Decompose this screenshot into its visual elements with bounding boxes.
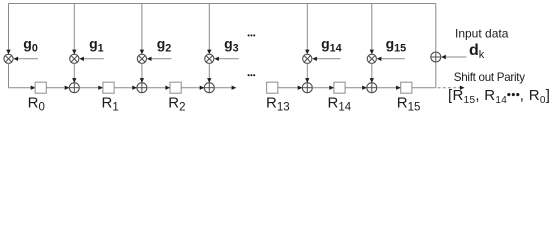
register R0 box xyxy=(35,82,46,93)
wire: g14 multiplier output into adder xyxy=(305,63,309,82)
multiplier g15 (circle-X) xyxy=(367,54,376,63)
svg-text:R1: R1 xyxy=(102,94,119,113)
wire: input adder output up to feedback line xyxy=(435,4,437,53)
multiplier g2 (circle-X) xyxy=(137,54,146,63)
ellipsis: top continuation dots xyxy=(248,34,256,36)
wire: tap from feedback to multiplier g2 xyxy=(140,4,144,55)
wire: coefficient input g0 xyxy=(14,57,39,61)
adder (XOR) below g15 xyxy=(367,83,377,93)
node: feedback junction / riser to input adder xyxy=(435,62,437,88)
wire: tap from feedback to multiplier g0 xyxy=(6,4,10,55)
wire: coefficient input g14 xyxy=(312,57,340,61)
register R13 box xyxy=(267,82,278,93)
wire: R13 to adder g14 xyxy=(278,86,303,90)
wire: R1 to adder g2 xyxy=(114,86,137,90)
svg-text:g2: g2 xyxy=(157,36,172,55)
wire: g0 multiplier output to R0 xyxy=(9,63,36,90)
svg-text:Shift out Parity: Shift out Parity xyxy=(454,71,525,84)
wire: g2 multiplier output into adder xyxy=(140,63,144,82)
svg-text:dk: dk xyxy=(469,42,485,61)
svg-text:R2: R2 xyxy=(168,94,185,113)
svg-text:g15: g15 xyxy=(386,36,407,55)
multiplier g14 (circle-X) xyxy=(303,54,312,63)
wire: tap from feedback to multiplier g1 xyxy=(72,4,76,55)
svg-text:g14: g14 xyxy=(321,36,342,55)
svg-text:g0: g0 xyxy=(23,36,38,55)
wire: adder g2 to R2 xyxy=(147,86,170,90)
wire: dashed shift-out arrow xyxy=(438,86,465,90)
wire: tap from feedback to multiplier g14 xyxy=(305,4,309,55)
wire: g3 multiplier output into adder xyxy=(207,63,211,82)
multiplier g3 (circle-X) xyxy=(205,54,214,63)
svg-text:R15: R15 xyxy=(397,94,421,113)
wire: tap from feedback to multiplier g3 xyxy=(207,4,211,55)
wire: adder g3 onward (continues) xyxy=(214,86,236,90)
wire: top feedback line xyxy=(9,3,436,5)
svg-text:, R0]: , R0] xyxy=(520,87,550,106)
multiplier g0 (circle-X) xyxy=(4,54,13,63)
wire: coefficient input g2 xyxy=(147,57,172,61)
wire: R0 to adder g1 xyxy=(46,86,69,90)
wire: tap from feedback to multiplier g15 xyxy=(370,4,374,55)
svg-text:g1: g1 xyxy=(89,36,104,55)
svg-text:Input data: Input data xyxy=(455,27,509,41)
register R2 box xyxy=(170,82,181,93)
adder (XOR) input: d_k + feedback xyxy=(431,52,441,62)
wire: adder g1 to R1 xyxy=(79,86,103,90)
adder (XOR) below g1 xyxy=(69,83,79,93)
wire: g15 multiplier output into adder xyxy=(370,63,374,82)
wire: coefficient input g1 xyxy=(79,57,104,61)
wire: R2 to adder g3 xyxy=(181,86,204,90)
adder (XOR) below g3 xyxy=(204,83,214,93)
wire: R14 to adder g15 xyxy=(345,86,367,90)
svg-text:R14: R14 xyxy=(328,94,352,113)
adder (XOR) below g14 xyxy=(302,83,312,93)
svg-text:R0: R0 xyxy=(28,94,45,113)
svg-text:R13: R13 xyxy=(266,94,290,113)
wire: adder g15 to R15 xyxy=(377,86,401,90)
register R1 box xyxy=(103,82,114,93)
svg-text:[R15, R14: [R15, R14 xyxy=(448,87,507,106)
wire: adder g14 to R14 xyxy=(312,86,334,90)
wire: R15 output to feedback junction xyxy=(412,87,436,89)
register R15 box xyxy=(401,82,412,93)
multiplier g1 (circle-X) xyxy=(70,54,79,63)
register R14 box xyxy=(334,82,345,93)
wire: coefficient input g3 xyxy=(214,57,239,61)
ellipsis: register-line continuation dots xyxy=(248,74,256,76)
wire: coefficient input g15 xyxy=(377,57,405,61)
svg-text:g3: g3 xyxy=(224,36,239,55)
wire: d_k input into adder xyxy=(441,55,466,59)
wire: g1 multiplier output into adder xyxy=(72,63,76,82)
adder (XOR) below g2 xyxy=(137,83,147,93)
